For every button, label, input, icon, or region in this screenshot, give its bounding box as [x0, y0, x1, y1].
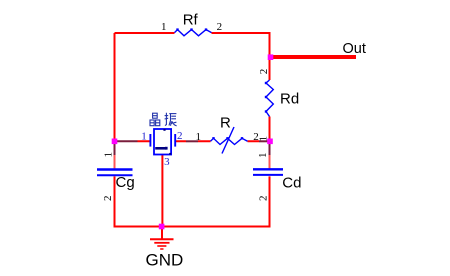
- svg-text:Rf: Rf: [183, 12, 199, 29]
- svg-text:Out: Out: [343, 41, 366, 57]
- svg-text:Rd: Rd: [280, 91, 299, 108]
- svg-text:2: 2: [258, 69, 270, 75]
- svg-text:1: 1: [195, 131, 201, 143]
- svg-text:1: 1: [141, 131, 147, 143]
- svg-text:GND: GND: [146, 251, 184, 270]
- svg-text:Cg: Cg: [116, 174, 135, 191]
- svg-text:3: 3: [164, 156, 170, 168]
- svg-text:1: 1: [103, 152, 115, 158]
- svg-text:1: 1: [161, 21, 167, 33]
- svg-text:2: 2: [102, 195, 114, 201]
- svg-text:Cd: Cd: [282, 175, 301, 192]
- svg-text:R: R: [220, 114, 231, 131]
- svg-text:2: 2: [258, 195, 270, 201]
- svg-text:1: 1: [257, 152, 269, 158]
- svg-text:2: 2: [217, 21, 223, 33]
- svg-text:2: 2: [177, 130, 183, 142]
